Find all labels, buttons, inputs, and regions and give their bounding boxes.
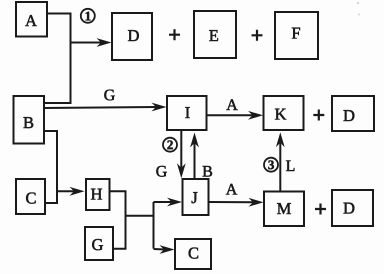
box G lower: [85, 227, 113, 260]
wire junction split: [126, 202, 154, 249]
arrow wire-A to D: [71, 38, 112, 47]
box D third row: [332, 190, 373, 226]
circled 1: [81, 9, 95, 23]
box C: [16, 179, 45, 214]
box M: [264, 192, 304, 227]
faint scan speck: [358, 14, 360, 16]
arrow I down to J: [177, 130, 186, 178]
box F: [275, 12, 318, 59]
circled 2: [163, 138, 177, 152]
arrow J to M: [209, 198, 264, 207]
box J: [183, 179, 209, 215]
label G on arrow B to I: [104, 90, 114, 101]
faint scan speck: [357, 2, 359, 4]
label B on up arrow: [203, 166, 212, 177]
box B: [14, 96, 45, 144]
wire A right-down-left into B: [44, 14, 71, 104]
circled 3: [264, 158, 278, 172]
box E: [194, 11, 236, 58]
box H: [86, 179, 110, 210]
box I: [167, 96, 207, 130]
arrow split to J: [154, 198, 183, 207]
arrow split to C lower: [154, 245, 175, 254]
label A on arrow I to K: [226, 99, 237, 110]
box A: [16, 2, 47, 37]
box C lower: [175, 239, 211, 269]
label A on arrow J to M: [226, 184, 237, 195]
box D second row: [332, 96, 374, 131]
arrow junction to H: [57, 187, 85, 196]
box K: [264, 96, 304, 130]
plus sign 1: [169, 29, 180, 40]
plus sign 2: [252, 30, 263, 41]
wire H and G merge: [110, 191, 126, 249]
label G on down arrow: [156, 166, 166, 177]
arrow J up to I: [190, 133, 199, 179]
plus sign 3: [313, 110, 324, 121]
arrow B to I: [44, 103, 167, 112]
label L on up arrow: [286, 161, 294, 171]
plus sign 4: [315, 204, 326, 215]
arrow I to K: [207, 111, 264, 120]
box D first row: [112, 13, 152, 60]
wire B down to C junction: [44, 131, 57, 203]
arrow M up to K: [276, 132, 285, 191]
